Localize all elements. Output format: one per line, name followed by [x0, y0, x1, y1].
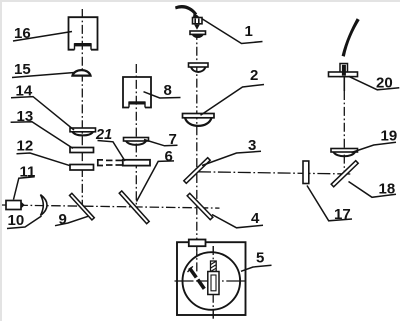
leader 6	[137, 161, 175, 202]
leader 14	[11, 97, 74, 130]
laser 11 body	[6, 201, 25, 210]
axis vertical sample lower	[212, 246, 214, 321]
detector box 16	[69, 17, 98, 50]
svg-text:19: 19	[381, 128, 398, 145]
svg-text:20: 20	[376, 75, 393, 92]
svg-text:1: 1	[245, 23, 253, 40]
leader 21	[98, 141, 126, 162]
mirror 9	[70, 193, 95, 220]
axis horizontal upper beam	[198, 172, 351, 174]
lamp 20 filament	[342, 65, 346, 76]
leader 2	[201, 85, 265, 116]
lamp 1 arrowhead	[193, 13, 200, 19]
leader 16	[13, 32, 72, 42]
sample box 5	[177, 242, 246, 315]
leader 20	[349, 76, 400, 90]
svg-text:9: 9	[59, 211, 67, 228]
mirror inside turntable	[188, 266, 205, 289]
svg-text:3: 3	[248, 137, 256, 154]
plate 12	[70, 165, 94, 171]
svg-text:13: 13	[17, 108, 34, 125]
svg-text:5: 5	[256, 250, 264, 267]
lamp 1 housing	[193, 18, 203, 24]
leader 9	[55, 216, 88, 225]
svg-text:17: 17	[334, 206, 351, 223]
leader 8	[144, 92, 181, 98]
svg-text:18: 18	[379, 181, 396, 198]
leader 15	[12, 73, 75, 78]
leader 19	[352, 142, 397, 152]
leader 12	[17, 153, 71, 166]
leader 7	[144, 140, 178, 146]
mirror 4	[187, 193, 213, 219]
svg-text:4: 4	[251, 210, 260, 227]
leader 11	[14, 177, 35, 200]
svg-text:11: 11	[20, 164, 36, 181]
leader 10	[7, 216, 42, 229]
lens 7	[124, 138, 149, 145]
axis vertical lamp 20 column	[343, 77, 345, 91]
plate 13	[70, 148, 94, 153]
svg-text:21: 21	[95, 127, 112, 143]
svg-text:7: 7	[169, 131, 177, 148]
condenser lens mid	[189, 63, 209, 72]
svg-text:16: 16	[14, 25, 31, 42]
lens 19	[331, 149, 358, 157]
leader 4	[212, 215, 263, 228]
svg-text:6: 6	[165, 148, 173, 165]
leader 5	[241, 265, 272, 271]
leader 13	[11, 122, 73, 149]
lamp 1 arc	[175, 5, 197, 15]
svg-text:8: 8	[164, 82, 172, 99]
cuvette	[208, 261, 219, 295]
axis vertical left column (node detector 16 axis)	[81, 9, 83, 211]
lamp 1 condenser tip	[194, 25, 200, 30]
svg-text:12: 12	[17, 138, 34, 155]
leader 18	[349, 182, 397, 198]
detector box 8	[123, 77, 151, 108]
leader 1	[202, 19, 263, 44]
axis vertical column of detector 8	[135, 64, 137, 213]
lens 10	[41, 195, 48, 216]
plate 17	[303, 161, 309, 184]
lens 15	[73, 70, 91, 75]
lamp 20 bulb	[340, 64, 348, 77]
svg-text:2: 2	[250, 67, 258, 84]
lens 2	[183, 114, 215, 126]
filter 21 dashed alternate position	[98, 160, 122, 166]
lamp 20 holder bar	[329, 72, 358, 77]
lamp 20 arc	[342, 18, 360, 57]
mirror 3	[184, 158, 210, 184]
filter 21 solid part	[123, 160, 150, 166]
lens 14	[70, 128, 96, 135]
svg-text:10: 10	[8, 212, 25, 229]
turntable circle	[183, 252, 241, 310]
mirror 6	[119, 191, 149, 224]
lens of lamp 1	[190, 31, 206, 38]
mirror 18	[331, 161, 358, 187]
axis vertical lamp 1 column	[196, 15, 198, 275]
leader 3	[202, 151, 261, 165]
svg-text:14: 14	[16, 83, 33, 100]
axis horizontal main beam	[2, 205, 220, 208]
axis vertical beam into sample	[196, 247, 198, 273]
axis horizontal sample	[175, 280, 248, 282]
leader 17	[307, 186, 352, 221]
axis vertical sample column	[212, 246, 214, 321]
aperture of sample box	[189, 240, 206, 247]
svg-text:15: 15	[14, 61, 31, 78]
